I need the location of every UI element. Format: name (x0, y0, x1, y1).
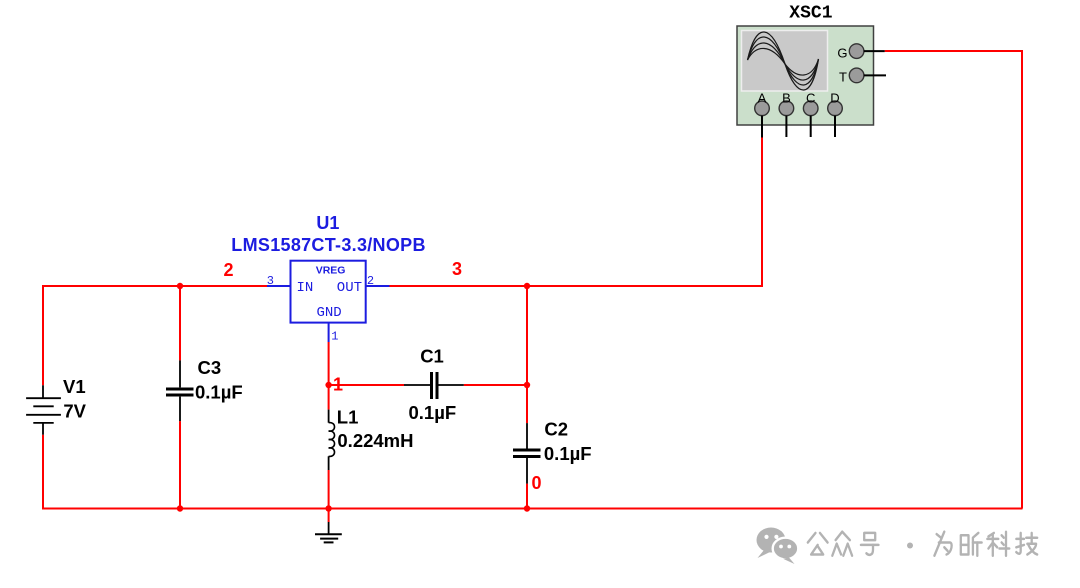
svg-text:T: T (839, 70, 847, 85)
svg-text:1: 1 (331, 330, 338, 344)
svg-text:1: 1 (333, 374, 343, 394)
svg-text:IN: IN (297, 280, 314, 296)
svg-text:G: G (837, 45, 847, 60)
svg-text:0.224mH: 0.224mH (337, 430, 413, 451)
svg-text:0.1µF: 0.1µF (409, 402, 457, 423)
svg-text:B: B (782, 90, 791, 105)
svg-text:0.1µF: 0.1µF (544, 443, 592, 464)
svg-text:U1: U1 (316, 213, 339, 233)
svg-text:C1: C1 (420, 346, 444, 367)
svg-text:VREG: VREG (316, 264, 346, 276)
svg-text:2: 2 (224, 260, 234, 280)
svg-text:L1: L1 (337, 407, 359, 428)
svg-text:0.1µF: 0.1µF (195, 382, 243, 403)
svg-text:XSC1: XSC1 (789, 4, 832, 24)
svg-text:OUT: OUT (337, 280, 362, 296)
svg-text:3: 3 (267, 274, 274, 288)
svg-text:GND: GND (317, 305, 342, 321)
svg-text:C: C (806, 90, 815, 105)
svg-text:2: 2 (367, 274, 374, 288)
svg-text:3: 3 (452, 259, 462, 279)
svg-text:C2: C2 (544, 419, 568, 440)
svg-text:7V: 7V (63, 401, 86, 422)
svg-text:C3: C3 (198, 357, 222, 378)
svg-text:0: 0 (532, 473, 542, 493)
svg-text:V1: V1 (63, 376, 86, 397)
svg-text:A: A (758, 90, 767, 105)
svg-text:LMS1587CT-3.3/NOPB: LMS1587CT-3.3/NOPB (231, 235, 425, 255)
svg-text:D: D (830, 90, 839, 105)
